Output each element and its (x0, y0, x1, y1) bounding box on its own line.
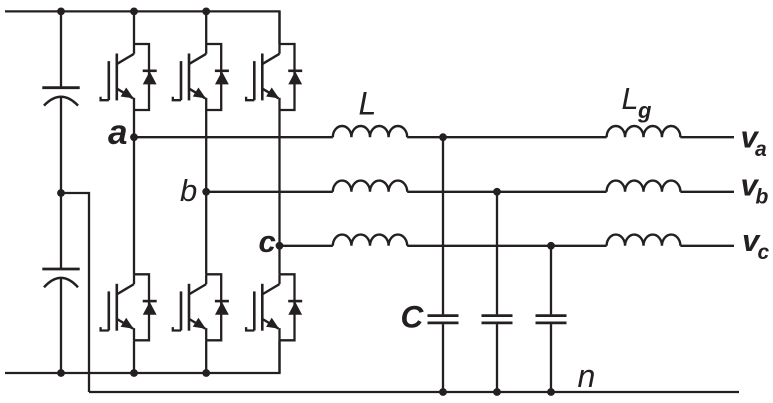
label: output voltage v_a (741, 120, 768, 161)
diode D5 (antiparallel) (280, 44, 295, 110)
capacitor Cdc2 (lower DC-link, curved plate) (42, 268, 79, 271)
svg-text:a: a (108, 113, 127, 152)
junction: top rail / leg b (202, 7, 210, 15)
capacitor C (filter, phase c) (536, 314, 567, 317)
wire: filter-capacitor branch lower (phase b) (496, 324, 498, 392)
label: output voltage v_c (742, 223, 770, 264)
wire: phase b line, L to grid-side inductor (407, 191, 606, 193)
inductor Lg (phase a) (607, 126, 681, 137)
wire: filter-capacitor branch upper (phase a) (442, 137, 444, 314)
transistor Q4 (IGBT) (205, 274, 207, 284)
junction: bottom rail / leg b (202, 369, 210, 377)
wire: phase-a leg, lower IGBT to bottom rail (133, 340, 135, 373)
wire: neutral bottom rail (89, 391, 739, 393)
wire: filter-capacitor branch upper (phase b) (496, 192, 498, 315)
inductor Lg (phase c) (607, 235, 681, 246)
inductor L (phase b) (333, 181, 407, 192)
junction: bottom rail / DC-link (57, 369, 65, 377)
wire: phase a line, node a to inverter-side inductor (134, 136, 333, 138)
wire: DC-link vertical middle segment (60, 98, 62, 270)
node c (276, 242, 284, 250)
wire: phase-c leg, top rail to upper IGBT (278, 11, 280, 44)
wire: phase-b leg, upper IGBT to lower IGBT through node b (205, 110, 207, 274)
wire: phase-a leg, top rail to upper IGBT (133, 11, 135, 44)
wire: filter-capacitor branch upper (phase c) (550, 246, 552, 315)
inductor L (phase c) (333, 235, 407, 246)
wire: phase c line, L to grid-side inductor (407, 245, 606, 247)
transistor Q6 (IGBT) (278, 274, 280, 284)
svg-text:c: c (758, 241, 770, 264)
wire: phase-b leg, lower IGBT to bottom rail (205, 340, 207, 373)
transistor Q1 (IGBT) (133, 44, 135, 54)
capacitor Cdc1 (upper DC-link, curved plate) (42, 86, 79, 89)
wire: DC+ top rail with corner into phase-c leg (5, 11, 280, 44)
transistor Q5 (IGBT) (278, 44, 280, 54)
diode D1 (antiparallel) (134, 44, 149, 110)
junction: neutral / C branch a (439, 388, 447, 396)
node a (130, 133, 138, 141)
svg-text:b: b (180, 173, 197, 208)
junction: neutral / C branch b (493, 388, 501, 396)
diode D4 (antiparallel) (206, 274, 221, 340)
capacitor C (filter, phase b) (482, 314, 513, 317)
diode D6 (antiparallel) (280, 274, 295, 340)
wire: phase a line, L to grid-side inductor (407, 136, 606, 138)
wire: phase a output lead (680, 136, 734, 138)
svg-text:L: L (359, 86, 377, 122)
inductor L (phase a) (333, 126, 407, 137)
transistor Q2 (IGBT) (133, 274, 135, 284)
wire: phase b output lead (680, 191, 734, 193)
label: inductor Lg (622, 82, 653, 123)
junction: phase b / C branch (493, 188, 501, 196)
capacitor C (filter, phase a) (428, 314, 459, 317)
wire: DC-link midpoint jog down to neutral rail (61, 193, 89, 392)
svg-text:C: C (401, 299, 425, 335)
wire: phase c line, node c to inverter-side inductor (280, 245, 333, 247)
svg-text:c: c (259, 224, 276, 259)
transistor Q3 (IGBT) (205, 44, 207, 54)
junction: neutral / C branch c (547, 388, 555, 396)
svg-text:a: a (755, 138, 767, 161)
wire: phase-c leg, lower IGBT to bottom rail (278, 340, 280, 373)
junction: top rail / DC-link (57, 7, 65, 15)
wire: DC- bottom rail with corner into phase-c leg (5, 340, 280, 373)
junction: top rail / leg a (130, 7, 138, 15)
inductor Lg (phase b) (607, 181, 681, 192)
junction: bottom rail / leg a (130, 369, 138, 377)
junction: phase c / C branch (547, 242, 555, 250)
junction: phase a / C branch (439, 133, 447, 141)
svg-text:b: b (756, 186, 769, 209)
wire: phase-b leg, top rail to upper IGBT (205, 11, 207, 44)
svg-text:g: g (637, 98, 652, 123)
label: output voltage v_b (741, 168, 769, 209)
diode D3 (antiparallel) (206, 44, 221, 110)
svg-text:n: n (578, 358, 596, 394)
wire: phase-c leg, upper IGBT to lower IGBT through node c (278, 110, 280, 274)
node b (202, 188, 210, 196)
wire: DC-link vertical lower segment (60, 279, 62, 373)
wire: DC-link vertical upper segment (60, 11, 62, 87)
diode D2 (antiparallel) (134, 274, 149, 340)
wire: filter-capacitor branch lower (phase a) (442, 324, 444, 392)
svg-text:L: L (622, 82, 639, 116)
wire: phase c output lead (680, 245, 734, 247)
junction: DC-link midpoint (57, 189, 65, 197)
wire: filter-capacitor branch lower (phase c) (550, 324, 552, 392)
wire: phase-a leg, upper IGBT to lower IGBT through node a (133, 110, 135, 274)
wire: phase b line, node b to inverter-side inductor (206, 191, 333, 193)
